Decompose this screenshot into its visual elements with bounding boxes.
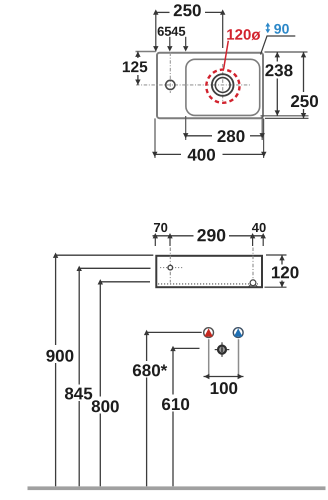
dimension 845 [79,267,150,269]
svg-text:45: 45 [171,24,185,39]
node: tap hole circle [166,80,175,89]
blue depth arrow icon [265,23,270,34]
svg-text:250: 250 [173,1,201,20]
dimension 900 [56,254,154,256]
wire: red leader from 120ø label [224,41,229,70]
svg-text:90: 90 [274,21,290,37]
svg-text:120: 120 [271,263,299,282]
wire: vertical dash-dot centerline through drain [222,64,224,104]
dimension 120 right [266,254,287,256]
wire: fixing hole vertical dash-dot [169,248,171,283]
dimension 400 [155,153,181,155]
node: waste outlet symbol [221,342,223,357]
wire: drain vertical dash-dot front [252,248,254,280]
svg-text:845: 845 [64,384,92,403]
wire: shafts below 70/290/40 [154,236,156,246]
node: cold water symbol (blue triangle) [233,328,243,338]
wire: black leader from 90 label to basin corner [261,36,296,55]
dimension 280 [186,135,212,137]
dimension 100 [204,376,244,378]
node: drain trap front [250,280,256,286]
svg-text:125: 125 [122,59,148,76]
svg-text:250: 250 [290,92,318,111]
wire: top extension line right [265,51,308,53]
dimension 70/290/40 line [153,235,194,237]
dimension 250 side [303,52,305,92]
dimension 238 [276,52,278,62]
svg-text:65: 65 [157,24,171,39]
svg-text:100: 100 [210,379,238,398]
node: fixing hole [168,265,173,270]
wire: basin bottom extension right [261,115,309,117]
dimension 250 top: line [156,11,170,13]
dimension 680* [147,331,202,333]
svg-text:280: 280 [217,127,245,146]
dimension 125: line and arrows [136,51,156,53]
wire: extension lines under water symbols [208,339,210,376]
wire: extension shafts below plan [154,118,156,158]
svg-text:400: 400 [187,146,215,165]
node: drain outer circle [212,74,234,96]
dimension 800 [100,281,150,283]
svg-text:900: 900 [46,347,74,366]
dimension 610 [173,347,200,349]
wire: hidden bottom dotted line [158,283,258,285]
node: floor line [28,486,326,490]
svg-text:800: 800 [91,397,119,416]
svg-text:238: 238 [265,61,293,80]
wire: fixing hole horizontal dotted [160,267,183,269]
node: drain inner circle [215,78,230,93]
node: red dashed circle 120 diameter [206,70,239,103]
svg-text:120ø: 120ø [226,27,261,44]
svg-text:70: 70 [153,220,167,235]
svg-text:680*: 680* [132,361,167,380]
wire: extension shaft left (250 top / 65) [155,12,157,51]
node: hot water symbol (red triangle) [204,328,214,338]
wire: horizontal dash-dot centerline through tap and drain [136,84,251,86]
wire: rim bottom extension right [265,117,309,119]
node: washbasin front rectangle [156,256,262,287]
dimension 65/45 arrows [153,46,158,51]
svg-text:290: 290 [197,225,226,245]
svg-text:40: 40 [252,220,266,235]
wire: vertical dash-dot centerline through tap hole [169,53,171,94]
svg-text:610: 610 [161,395,189,414]
wire: extension shaft right (250 top to drain) [222,12,224,48]
node: basin bowl rounded rect (plan) [186,59,260,115]
node: washbasin outer rim (plan) [157,53,263,119]
